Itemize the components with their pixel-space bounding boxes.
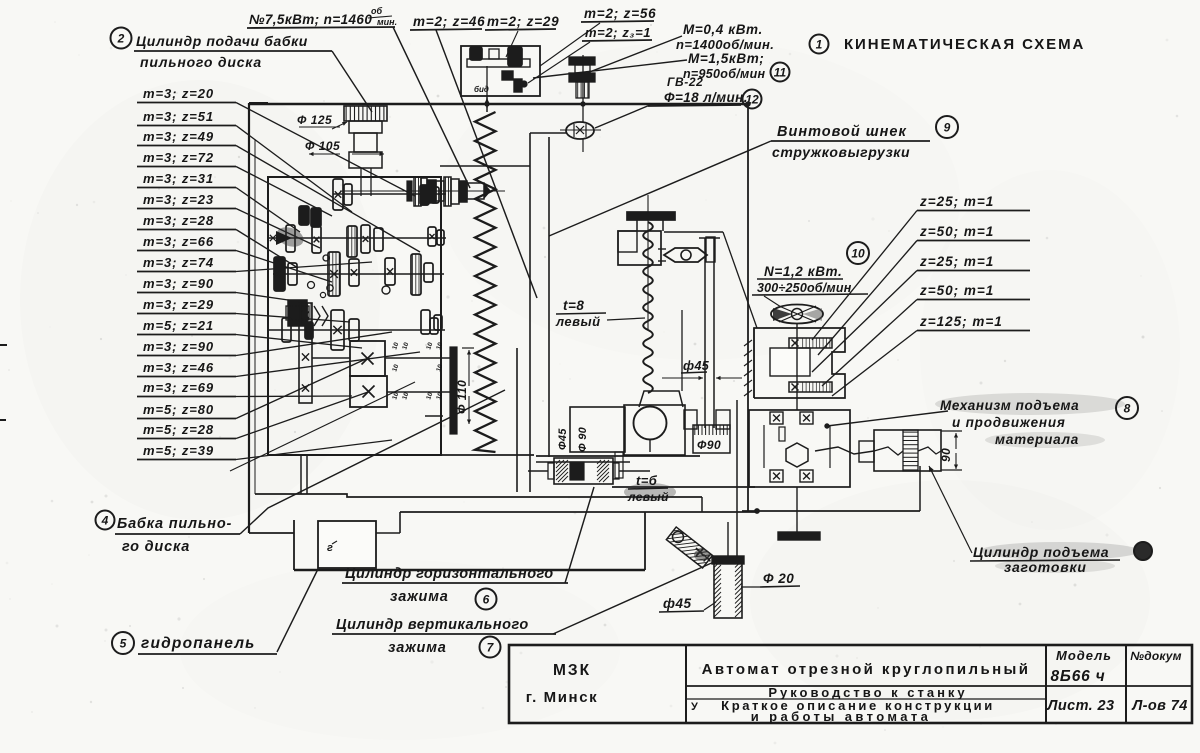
- left margin scan marks: [0, 344, 7, 346]
- fan motor ellipse: [771, 305, 823, 324]
- svg-text:КИНЕМАТИЧЕСКАЯ СХЕМА: КИНЕМАТИЧЕСКАЯ СХЕМА: [844, 36, 1085, 53]
- right frame vertical: [747, 104, 749, 511]
- svg-text:и продвижения: и продвижения: [952, 415, 1066, 430]
- gearbox bottom extension: [268, 454, 534, 456]
- svg-text:m=3; z=28: m=3; z=28: [143, 213, 214, 228]
- svg-text:Ф 105: Ф 105: [305, 139, 340, 153]
- svg-text:m=3; z=51: m=3; z=51: [143, 109, 214, 124]
- mid line y494-497: [255, 494, 702, 497]
- svg-text:№7,5кВт; n=1460: №7,5кВт; n=1460: [249, 12, 372, 27]
- slide base lines: [536, 455, 700, 457]
- coupling stack: [569, 57, 595, 65]
- leader from label row 4: [236, 167, 332, 217]
- svg-text:Цилиндр вертикального: Цилиндр вертикального: [336, 617, 529, 633]
- column top ledge: [440, 165, 530, 167]
- svg-text:М=1,5кВт;: М=1,5кВт;: [688, 51, 764, 66]
- gearbox inner housing: [268, 177, 441, 455]
- leader from label row 3: [236, 146, 420, 253]
- column top link: [530, 132, 567, 134]
- gear z50 lower: [789, 382, 832, 392]
- svg-text:Винтовой шнек: Винтовой шнек: [777, 124, 907, 140]
- worm housing: [618, 231, 661, 265]
- leader from label row 11: [236, 314, 350, 323]
- svg-text:Ф 90: Ф 90: [577, 426, 589, 452]
- svg-text:Ф 125: Ф 125: [297, 113, 332, 127]
- small circles in cluster: [308, 282, 315, 289]
- svg-text:левый: левый: [555, 314, 601, 329]
- balloon 6: [476, 589, 497, 610]
- lower drive housing: [749, 410, 850, 487]
- gears on shaft II: [286, 225, 295, 252]
- saw column vertical c: [548, 137, 550, 457]
- leader from label row 13: [236, 332, 392, 356]
- pedestal housing left: [570, 407, 625, 452]
- leader from label row 17: [236, 392, 368, 439]
- svg-text:У: У: [691, 701, 698, 713]
- motor vertical shaft: [486, 66, 488, 96]
- guide rod third: [681, 310, 683, 391]
- small chevron coupling: [314, 306, 320, 326]
- leader from label row 1: [236, 103, 415, 197]
- leader right 1: [812, 211, 917, 341]
- balloon lift cylinder (dark): [1134, 542, 1152, 560]
- saw column vertical a: [516, 348, 518, 492]
- svg-text:10: 10: [851, 247, 865, 261]
- balloon 5: [112, 632, 134, 654]
- shaft III: [273, 273, 444, 275]
- svg-text:n=1400об/мин.: n=1400об/мин.: [676, 37, 774, 52]
- svg-text:Лист. 23: Лист. 23: [1047, 698, 1115, 714]
- svg-text:Ф45: Ф45: [557, 428, 569, 450]
- junction dot: [755, 509, 760, 514]
- svg-text:m=2; z=29: m=2; z=29: [487, 14, 560, 29]
- machine base bottom: [294, 569, 645, 571]
- svg-text:m=5; z=21: m=5; z=21: [143, 318, 214, 333]
- svg-text:m=2; z=46: m=2; z=46: [413, 14, 486, 29]
- svg-text:Цилиндр подачи бабки: Цилиндр подачи бабки: [136, 33, 308, 49]
- label t=6 levyi (smudged): [624, 483, 676, 501]
- leader F=18 to pump: [595, 105, 650, 128]
- svg-text:Ф 110: Ф 110: [455, 380, 469, 414]
- gears on shaft IV: [331, 310, 344, 350]
- leader from label row 6: [236, 209, 320, 249]
- arbor cone tip: [484, 183, 491, 199]
- svg-text:об: об: [371, 6, 382, 16]
- vertical clamp rod: [727, 522, 729, 556]
- svg-text:z=25; m=1: z=25; m=1: [919, 194, 994, 209]
- gears on shaft I: [333, 179, 343, 210]
- svg-text:90: 90: [939, 448, 953, 462]
- svg-text:Модель: Модель: [1056, 648, 1112, 663]
- vertical x702: [701, 497, 703, 512]
- diagonal cylinder dark marks: [696, 548, 704, 556]
- svg-text:Автомат отрезной круглопильный: Автомат отрезной круглопильный: [702, 661, 1031, 678]
- leader right 4: [822, 300, 917, 387]
- bracket left of box: [859, 441, 874, 462]
- rod top cap: [706, 237, 715, 262]
- svg-text:m=3; z=29: m=3; z=29: [143, 297, 214, 312]
- chip screw wavy shaft: [643, 222, 653, 393]
- title block outer frame: [509, 645, 1192, 723]
- svg-text:m=3; z=49: m=3; z=49: [143, 129, 214, 144]
- svg-text:8Б66 ч: 8Б66 ч: [1051, 668, 1106, 685]
- svg-text:и работы автомата: и работы автомата: [751, 709, 932, 724]
- svg-text:стружковыгрузки: стружковыгрузки: [772, 144, 910, 160]
- worm gear housing inner white: [770, 348, 810, 376]
- arbor cone steps: [414, 177, 421, 206]
- vertical clamp top cap: [712, 556, 744, 564]
- table line y512: [400, 511, 755, 513]
- leader mekhanizm: [827, 411, 948, 426]
- svg-text:Цилиндр подъема: Цилиндр подъема: [973, 544, 1109, 560]
- bottom casing line y533: [249, 532, 294, 534]
- balloon 7: [480, 637, 501, 658]
- base vertical x645: [644, 512, 646, 570]
- leader label2: [332, 51, 372, 112]
- leader from label row 10: [236, 293, 302, 303]
- gear hatch details: [329, 252, 331, 296]
- big change-gear box lower: [350, 376, 387, 407]
- leader from label row 18: [236, 440, 392, 460]
- svg-text:m=3; z=66: m=3; z=66: [143, 234, 214, 249]
- clamp rod: [528, 470, 548, 472]
- svg-text:z=25; m=1: z=25; m=1: [919, 254, 994, 269]
- svg-text:ГВ-22: ГВ-22: [667, 75, 703, 89]
- shaft V stub: [312, 357, 350, 359]
- leader M=1.5: [533, 60, 687, 78]
- clamp area line y487: [612, 486, 755, 488]
- lift platform bar: [778, 532, 820, 540]
- vertical clamp column line: [736, 400, 738, 557]
- leader to arbor: [393, 27, 470, 188]
- rack hatch band: [903, 430, 918, 471]
- svg-text:мин.: мин.: [377, 17, 397, 27]
- svg-text:m=3; z=20: m=3; z=20: [143, 86, 214, 101]
- svg-text:№докум: №докум: [1130, 649, 1181, 663]
- balloon 1: [810, 35, 829, 54]
- svg-text:6: 6: [483, 593, 490, 607]
- svg-text:Ф 20: Ф 20: [763, 571, 794, 586]
- motor internals band: [467, 59, 530, 67]
- svg-text:зажима: зажима: [388, 640, 447, 656]
- balloon 4: [96, 511, 115, 530]
- leader vertikalnyi: [553, 561, 716, 634]
- svg-text:4: 4: [101, 514, 109, 528]
- smudge over tsilindr podyema: [980, 542, 1140, 560]
- main motor housing: [461, 46, 540, 96]
- worm block dark: [288, 300, 307, 326]
- pump ellipse: [566, 122, 594, 139]
- svg-text:m=3; z=90: m=3; z=90: [143, 276, 214, 291]
- dimension line F105: [309, 153, 340, 155]
- balloon 12: [743, 90, 762, 109]
- junction dots: [485, 102, 489, 106]
- balloon 2: [111, 28, 132, 49]
- step vertical x400: [399, 512, 401, 533]
- vertical x920 under dim box: [919, 466, 921, 511]
- output gearbox (feed rolls): [874, 430, 941, 471]
- leader from label row 7: [236, 230, 298, 269]
- bevel hex gear: [786, 443, 808, 467]
- title block verticals: [685, 645, 687, 723]
- lower right table line y511: [742, 510, 920, 512]
- leader M=0.4: [587, 36, 682, 73]
- leader right 5: [832, 331, 917, 397]
- inner wall verticals below gearbox: [300, 455, 302, 494]
- guide rod pair: [704, 238, 706, 428]
- svg-text:ф45: ф45: [683, 359, 710, 373]
- svg-text:m=3; z=69: m=3; z=69: [143, 380, 214, 395]
- dim 90 line: [955, 433, 957, 449]
- leader from label row 8: [236, 251, 332, 283]
- svg-text:М=0,4 кВт.: М=0,4 кВт.: [683, 22, 763, 37]
- worm funnel: [639, 391, 683, 407]
- leader m=2 z=56: [540, 23, 600, 66]
- bearing blocks with X: [770, 412, 783, 424]
- housing hatch left: [744, 340, 752, 346]
- arbor hatched plate: [407, 181, 412, 201]
- svg-text:8: 8: [1124, 402, 1131, 416]
- svg-text:m=3; z=90: m=3; z=90: [143, 339, 214, 354]
- pedestal step: [615, 452, 623, 478]
- left shaft end bearings: [270, 235, 276, 241]
- svg-text:Механизм подъема: Механизм подъема: [940, 398, 1079, 413]
- svg-text:m=2; z=56: m=2; z=56: [584, 6, 657, 21]
- shaft II: [269, 237, 446, 239]
- leader right 2: [818, 241, 917, 356]
- svg-text:z=50; m=1: z=50; m=1: [919, 224, 994, 239]
- left outer casing vertical: [248, 103, 250, 533]
- feed output shaft: [815, 447, 874, 454]
- svg-text:m=5; z=39: m=5; z=39: [143, 443, 214, 458]
- balloon 10: [847, 242, 869, 264]
- bevel gear pair: [502, 71, 513, 80]
- svg-text:материала: материала: [995, 432, 1079, 447]
- worm gear housing outer: [754, 328, 845, 398]
- svg-text:Ф90: Ф90: [697, 438, 721, 452]
- clamp dark detail: [570, 462, 584, 480]
- svg-text:m=5; z=28: m=5; z=28: [143, 422, 214, 437]
- leader gidropanel: [277, 569, 318, 652]
- svg-text:m=3; z=23: m=3; z=23: [143, 192, 214, 207]
- svg-text:пильного диска: пильного диска: [140, 54, 262, 70]
- leader N=1.2 to fan: [764, 296, 781, 307]
- stepped pulley body: [349, 121, 382, 133]
- svg-text:9: 9: [944, 121, 951, 135]
- svg-text:го диска: го диска: [122, 539, 190, 555]
- svg-text:Л-ов 74: Л-ов 74: [1131, 698, 1187, 714]
- dark smudge arrows on shaft II: [274, 224, 306, 250]
- svg-text:m=3; z=72: m=3; z=72: [143, 150, 214, 165]
- leader from label row 9: [236, 262, 372, 272]
- gear z25 upper: [789, 338, 832, 348]
- vertical frame hatch lines: [753, 328, 755, 398]
- saw blade (vertical zigzag): [475, 112, 496, 452]
- big change-gear box upper: [350, 341, 385, 376]
- worm top flange: [627, 212, 675, 220]
- drive vertical shaft: [796, 334, 798, 410]
- svg-text:N=1,2 кВт.: N=1,2 кВт.: [764, 264, 842, 279]
- pump centerlines: [560, 129, 601, 131]
- svg-text:1: 1: [816, 38, 823, 52]
- main top horizontal line: [249, 103, 746, 106]
- balloon 11: [771, 63, 790, 82]
- leader m=2 z=29: [506, 31, 518, 57]
- stub shafts to phi110 bar: [385, 357, 450, 359]
- link line to rods: [664, 231, 723, 233]
- lever pointed link: [664, 248, 707, 262]
- phi110 dimension line: [468, 350, 470, 386]
- blade drive vertical: [486, 96, 488, 112]
- balloon 8: [1116, 397, 1138, 419]
- pulley shaft lines: [360, 168, 362, 196]
- leader from label row 2: [236, 126, 352, 213]
- smudge over mekhanizm label: [935, 393, 1125, 415]
- arbor centerline: [340, 190, 505, 192]
- leader babka: [240, 390, 505, 534]
- rod bottom brackets: [684, 410, 697, 429]
- ball housing: [624, 405, 685, 455]
- svg-text:m=3; z=74: m=3; z=74: [143, 255, 214, 270]
- leader right 3: [812, 271, 917, 373]
- inner drive lines: [763, 425, 765, 468]
- phi110 dark bar: [450, 347, 457, 434]
- leader from label row 14: [236, 352, 420, 377]
- leader from label row 12: [236, 335, 362, 349]
- svg-text:ф45: ф45: [663, 596, 691, 611]
- svg-text:2: 2: [117, 32, 125, 46]
- leader gorizontalnyi: [565, 487, 594, 583]
- gearbox housing notch at phi110: [425, 415, 443, 417]
- svg-text:зажима: зажима: [390, 589, 449, 605]
- leader t=8: [607, 318, 645, 320]
- extra frame diagonal: [230, 382, 415, 471]
- svg-text:300÷250об/мин: 300÷250об/мин: [757, 281, 852, 295]
- F90 block (hatched): [693, 425, 730, 453]
- title block horizontal: [686, 685, 1192, 687]
- tall rack gear left: [299, 303, 312, 403]
- wavy shaft in box: [874, 447, 903, 455]
- svg-text:11: 11: [774, 66, 787, 80]
- leader shnek: [549, 141, 771, 236]
- coupling shaft vertical: [582, 55, 584, 122]
- diagonal cylinder: [666, 527, 712, 568]
- outer casing top-left corner: [249, 102, 268, 104]
- svg-text:заготовки: заготовки: [1004, 559, 1087, 575]
- svg-text:МЗК: МЗК: [553, 662, 591, 679]
- scan noise blotches: [20, 80, 380, 520]
- svg-text:г. Минск: г. Минск: [526, 689, 599, 706]
- svg-text:m=2; z₃=1: m=2; z₃=1: [585, 25, 651, 40]
- svg-text:z=125; m=1: z=125; m=1: [919, 314, 1003, 329]
- leader m=2 z3=1: [528, 42, 590, 83]
- chip screw centerline: [647, 195, 649, 330]
- svg-text:m=3; z=31: m=3; z=31: [143, 171, 214, 186]
- svg-text:m=5; z=80: m=5; z=80: [143, 402, 214, 417]
- leader m=2 z=46: [436, 30, 537, 298]
- hydropanel box: [318, 521, 376, 568]
- leader from label row 5: [236, 188, 300, 233]
- leader lift cylinder: [929, 466, 972, 553]
- motor internal gears: [470, 47, 482, 60]
- base vertical x294: [293, 520, 295, 570]
- stepped pulley cap F125 (hatched): [344, 106, 387, 121]
- leader from label row 16: [236, 358, 368, 419]
- svg-text:t=8: t=8: [563, 298, 584, 313]
- clamp flanges: [548, 463, 554, 479]
- svg-text:гидропанель: гидропанель: [141, 635, 256, 652]
- fan shaft: [796, 323, 798, 334]
- screw ball: [634, 407, 667, 440]
- leader from label row 15: [236, 395, 352, 398]
- horizontal clamp cylinder body: [554, 458, 613, 484]
- balloon 9: [936, 116, 958, 138]
- gears on shaft III: [274, 257, 285, 291]
- svg-text:t=б: t=б: [636, 473, 658, 488]
- svg-text:Бабка пильно-: Бабка пильно-: [117, 516, 232, 532]
- extra small gears right rows: [430, 318, 438, 334]
- shaft I: [333, 193, 446, 195]
- svg-text:m=3; z=46: m=3; z=46: [143, 360, 214, 375]
- saw column vertical b: [529, 133, 531, 492]
- shaft IV: [269, 329, 445, 331]
- svg-text:z=50; m=1: z=50; m=1: [919, 283, 994, 298]
- svg-text:левый: левый: [627, 490, 669, 504]
- vertical clamp cylinder body: [714, 563, 742, 618]
- svg-text:5: 5: [120, 637, 127, 651]
